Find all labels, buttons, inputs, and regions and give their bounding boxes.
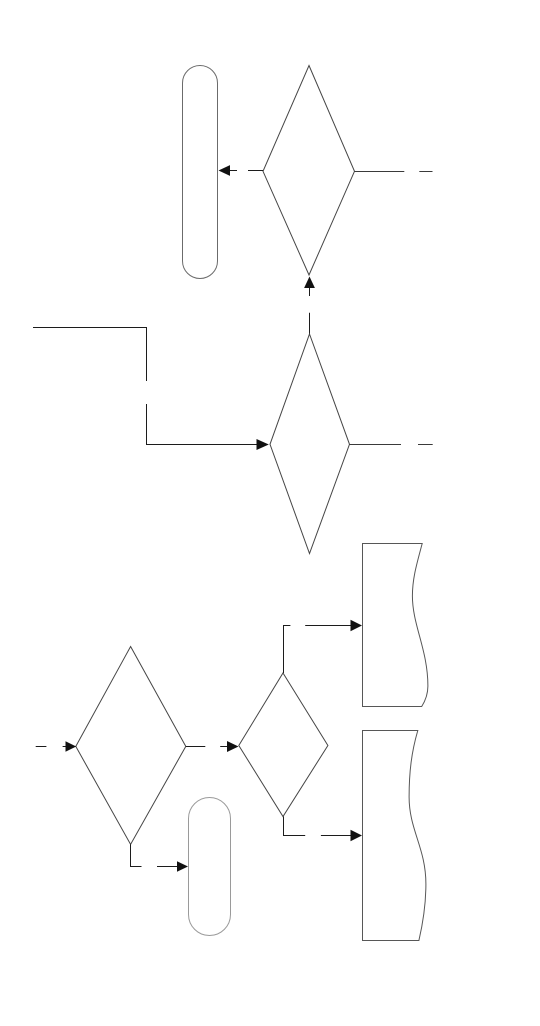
connector W7: D3 right vertex to D4 left vertex, dashed with arrowhead <box>186 741 239 752</box>
terminator T2 (bottom capsule) <box>189 798 231 936</box>
decision D4 (small middle diamond) <box>239 673 328 817</box>
connector W4: elbow polyline from left margin into D2 left vertex, arrowhead right <box>33 328 269 451</box>
terminator T1 (top capsule) <box>183 66 218 279</box>
connector W10: D3 bottom vertex down then right into terminator T2, dashed with arrowhead <box>131 844 189 871</box>
connector W1: D1 left vertex to T1, dashed with left arrowhead <box>219 165 264 176</box>
connector W8: D4 top vertex up then right into document DOC1, arrowhead <box>284 620 363 673</box>
decision D2 (middle diamond) <box>270 334 350 554</box>
connector W2: D1 right vertex heading right, dashed <box>355 171 433 173</box>
connector W9: D4 bottom vertex down then right into document DOC2, dashed with arrowhead <box>284 817 363 842</box>
connector W3: D2 top vertex up to D1 bottom, dashed with up arrowhead <box>304 277 315 335</box>
decision D1 (top diamond) <box>263 66 355 276</box>
connector W5: D2 right vertex heading right, dashed <box>350 444 433 446</box>
decision D3 (bottom-left diamond) <box>76 647 186 845</box>
connector W6: from left margin into D3 left vertex, dashed with arrowhead <box>36 741 76 751</box>
document DOC2 (bottom-right, wavy right edge) <box>363 731 426 941</box>
document DOC1 (top-right, wavy right edge) <box>363 544 428 707</box>
